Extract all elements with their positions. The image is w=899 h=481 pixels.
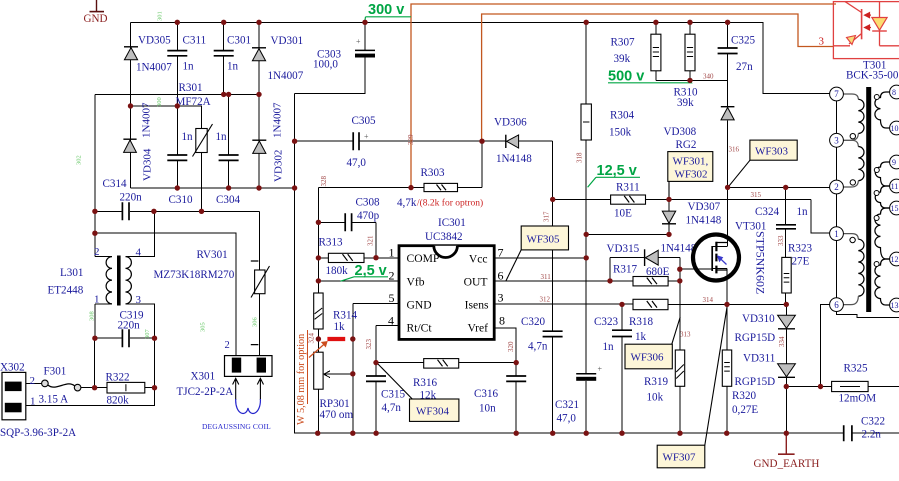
diode VD301 xyxy=(252,35,304,82)
transformer T301 pin 2 xyxy=(830,180,844,194)
svg-text:220n: 220n xyxy=(118,320,141,332)
svg-text:R318: R318 xyxy=(629,316,653,328)
svg-text:WF303: WF303 xyxy=(755,146,789,158)
diode VD310 xyxy=(735,313,796,344)
wire Vfb pin2 row xyxy=(318,280,398,282)
wire clamp row net 340 xyxy=(656,22,728,106)
resistor R325 xyxy=(832,363,877,405)
svg-text:WF302: WF302 xyxy=(675,169,708,181)
svg-text:324: 324 xyxy=(308,333,316,344)
svg-text:47,0: 47,0 xyxy=(557,413,577,425)
wire RP301 wiper arm xyxy=(324,371,353,378)
capacitor C322 xyxy=(844,425,852,441)
svg-text:1n: 1n xyxy=(227,61,239,73)
svg-text:1N4148: 1N4148 xyxy=(496,153,532,165)
transformer T301 pin 11 xyxy=(890,179,899,193)
svg-text:R301: R301 xyxy=(179,82,203,94)
resistor R317 xyxy=(613,264,670,286)
transformer T301 primary winding 3-2 xyxy=(843,140,864,187)
diode VD302 xyxy=(252,102,284,182)
wire L301 pin1 lead xyxy=(95,304,112,338)
transformer T301 phase dot secondary 5 xyxy=(874,262,879,267)
capacitor C305 xyxy=(353,132,359,150)
wire gate lead xyxy=(680,268,712,270)
wire R303 row net 328 xyxy=(318,141,482,187)
svg-text:1: 1 xyxy=(94,294,100,306)
wire GND pin5 row xyxy=(353,303,399,433)
svg-text:WF307: WF307 xyxy=(663,452,697,464)
svg-text:10k: 10k xyxy=(647,392,664,404)
wire Rt/Ct pin4 xyxy=(376,325,399,362)
svg-text:1k: 1k xyxy=(334,321,346,333)
transformer T301 primary winding 1-6 xyxy=(843,234,864,305)
ground symbol GND_EARTH xyxy=(754,433,820,470)
svg-text:7: 7 xyxy=(498,246,504,260)
svg-text:C324: C324 xyxy=(755,206,779,218)
capacitor C311 xyxy=(167,51,187,56)
wire T301 pin2-1 interlink xyxy=(836,194,838,227)
svg-text:12,5 v: 12,5 v xyxy=(597,163,637,179)
svg-text:2: 2 xyxy=(94,246,100,258)
svg-text:3: 3 xyxy=(834,136,839,146)
wire C319 row xyxy=(95,337,155,339)
optocoupler phototransistor xyxy=(833,2,861,46)
wire AC node 1 xyxy=(131,106,202,128)
wire R325 row xyxy=(786,305,899,387)
svg-text:TJC2-2P-2A: TJC2-2P-2A xyxy=(177,386,234,398)
svg-text:MF72A: MF72A xyxy=(176,96,211,108)
resistor R323 xyxy=(782,243,813,294)
svg-text:334: 334 xyxy=(778,336,786,347)
wire net 314 row xyxy=(668,303,786,305)
svg-text:2: 2 xyxy=(389,269,395,283)
svg-text:1n: 1n xyxy=(603,341,615,353)
svg-text:7: 7 xyxy=(834,89,839,99)
transformer T301 phase dot secondary 3 xyxy=(874,191,879,196)
wire C311 column xyxy=(176,22,178,106)
resistor R307 xyxy=(611,34,661,71)
diode VD305 xyxy=(124,35,172,74)
svg-text:R316: R316 xyxy=(413,377,437,389)
svg-text:C315: C315 xyxy=(381,389,405,401)
label 12,5 v xyxy=(588,163,640,187)
transformer T301 pin 1 xyxy=(830,227,844,241)
svg-text:4,7n: 4,7n xyxy=(528,341,548,353)
svg-text:STP5NK60Z: STP5NK60Z xyxy=(754,231,768,294)
svg-text:313: 313 xyxy=(680,331,691,339)
svg-text:R311: R311 xyxy=(616,182,640,194)
svg-text:C301: C301 xyxy=(227,35,251,47)
wire L301 pin3 lead xyxy=(126,304,155,338)
transformer T301 phase dot secondary 1 xyxy=(874,95,879,100)
capacitor C319 xyxy=(122,329,129,347)
diode VD308 xyxy=(664,107,735,151)
svg-text:C308: C308 xyxy=(356,197,380,209)
svg-text:1n: 1n xyxy=(216,131,228,143)
svg-text:1N4148: 1N4148 xyxy=(661,243,697,255)
svg-text:ET2448: ET2448 xyxy=(48,285,84,297)
svg-text:R317: R317 xyxy=(613,264,637,276)
svg-text:1n: 1n xyxy=(183,61,195,73)
svg-text:MZ73K18RM270: MZ73K18RM270 xyxy=(154,269,235,281)
transistor VT301 MOSFET xyxy=(693,221,768,295)
wire VD307 leads xyxy=(586,182,669,235)
svg-text:R313: R313 xyxy=(319,237,343,249)
svg-text:1N4007: 1N4007 xyxy=(272,102,284,138)
svg-text:333: 333 xyxy=(777,235,785,246)
resistor R304 xyxy=(581,104,634,140)
svg-text:VD310: VD310 xyxy=(742,313,775,325)
svg-text:8: 8 xyxy=(499,313,505,327)
wire C305 aux row xyxy=(295,140,553,142)
svg-text:0,27E: 0,27E xyxy=(732,404,758,416)
svg-text:3.15 A: 3.15 A xyxy=(39,394,69,406)
svg-text:R314: R314 xyxy=(333,310,357,322)
transformer T301 pin 15 xyxy=(890,201,899,215)
IC301 pin names xyxy=(407,252,489,335)
resistor R318 xyxy=(629,299,668,343)
svg-text:3: 3 xyxy=(819,36,825,48)
svg-text:27E: 27E xyxy=(792,256,810,268)
wire C323 branch xyxy=(621,304,623,433)
svg-text:X301: X301 xyxy=(191,371,216,383)
svg-text:3: 3 xyxy=(136,294,142,306)
svg-text:317: 317 xyxy=(543,211,551,222)
wire +300V top rail net 301 xyxy=(131,22,830,93)
svg-text:13: 13 xyxy=(891,301,899,310)
svg-text:C321: C321 xyxy=(555,399,579,411)
potentiometer RP301 xyxy=(314,352,354,421)
svg-text:WF306: WF306 xyxy=(631,352,665,364)
wire L301 pin2 stub xyxy=(95,256,112,258)
svg-text:1n: 1n xyxy=(182,131,194,143)
svg-text:RGP15D: RGP15D xyxy=(735,376,776,388)
wire net 317 drop xyxy=(552,141,554,433)
svg-text:4: 4 xyxy=(388,313,394,327)
wire T301 pin3-2 interlink xyxy=(836,147,838,180)
svg-text:X302: X302 xyxy=(0,362,25,374)
svg-text:/(8.2k for optron): /(8.2k for optron) xyxy=(417,198,483,209)
svg-text:R307: R307 xyxy=(611,37,635,49)
capacitor C314 xyxy=(122,202,129,220)
svg-text:15: 15 xyxy=(891,204,899,213)
diode VD315 xyxy=(607,243,697,267)
svg-text:R325: R325 xyxy=(844,363,868,375)
svg-text:500 v: 500 v xyxy=(608,69,644,85)
capacitor C308 xyxy=(345,213,351,231)
transformer T301 phase dot primary 3 xyxy=(850,237,855,242)
svg-text:C304: C304 xyxy=(216,194,240,206)
capacitor C301 xyxy=(214,51,234,56)
wire degauss feed xyxy=(95,233,236,356)
svg-text:320: 320 xyxy=(507,341,515,352)
wire RP301 leads xyxy=(317,339,319,433)
svg-text:323: 323 xyxy=(365,339,373,350)
capacitor C315 xyxy=(366,376,386,381)
svg-text:1: 1 xyxy=(389,246,395,260)
IC301 UC3842 body xyxy=(399,217,494,339)
wire MOSFET drain source leads xyxy=(713,246,728,304)
wire VD310 VD311 branch xyxy=(785,304,787,433)
test point WF303 xyxy=(728,140,797,187)
svg-text:1N4007: 1N4007 xyxy=(136,62,172,74)
thermistor R301 MF72A xyxy=(176,82,213,157)
svg-text:1N4148: 1N4148 xyxy=(686,215,722,227)
svg-text:1k: 1k xyxy=(635,331,647,343)
label 300 v xyxy=(365,2,411,22)
label 2,5 v xyxy=(341,263,389,281)
optocoupler emitter arrowhead xyxy=(847,36,856,45)
wire C304 column xyxy=(228,94,230,188)
wire Vcc pin7 row xyxy=(494,257,586,259)
svg-text:315: 315 xyxy=(751,191,762,199)
resistor R322 xyxy=(106,372,145,407)
svg-text:8: 8 xyxy=(892,88,896,97)
net number labels maroon xyxy=(308,73,787,353)
svg-text:180k: 180k xyxy=(326,265,349,277)
svg-text:11: 11 xyxy=(891,182,899,191)
wire R319 branch net 313 xyxy=(679,281,681,433)
optocoupler T301 box xyxy=(833,2,899,59)
svg-text:WF305: WF305 xyxy=(527,234,561,246)
wire C319 to fuse rail xyxy=(95,338,155,388)
wire T301 pin7 interlink xyxy=(836,101,838,134)
svg-text:316: 316 xyxy=(729,146,740,154)
svg-text:12mOM: 12mOM xyxy=(839,393,877,405)
svg-text:3: 3 xyxy=(498,291,504,305)
svg-text:WF304: WF304 xyxy=(416,406,450,418)
transformer T301 pin 7 xyxy=(830,87,844,101)
diode VD307 xyxy=(662,201,722,227)
svg-text:6: 6 xyxy=(834,300,839,310)
svg-text:39k: 39k xyxy=(677,97,694,109)
svg-text:6: 6 xyxy=(498,269,504,283)
capacitor C303 electrolytic xyxy=(313,37,375,71)
svg-text:Vref: Vref xyxy=(467,322,488,335)
IC301 pin numbers xyxy=(388,246,505,328)
svg-text:1N4007: 1N4007 xyxy=(268,70,304,82)
svg-text:+: + xyxy=(356,37,361,46)
wire optron net 329 orange xyxy=(411,4,836,188)
svg-text:301: 301 xyxy=(157,11,164,21)
svg-text:307: 307 xyxy=(144,329,151,340)
transformer T301 pin 8 xyxy=(890,85,899,99)
diode VD311 xyxy=(735,353,796,389)
transformer T301 secondary windings xyxy=(875,92,890,305)
connector X302 xyxy=(0,362,76,440)
wire drain net xyxy=(728,121,830,247)
transformer T301 pin 9 xyxy=(890,155,899,169)
wire optron emitter orange xyxy=(482,14,834,141)
wire R320 branch xyxy=(726,270,728,433)
svg-text:10E: 10E xyxy=(614,208,632,220)
svg-text:VD311: VD311 xyxy=(743,353,775,365)
transformer T301 label xyxy=(846,60,899,82)
resistor R316 xyxy=(413,359,459,402)
net number labels green xyxy=(76,11,259,339)
test point WF301 WF302 xyxy=(668,152,713,200)
svg-text:WF301,: WF301, xyxy=(673,156,709,168)
ground symbol GND top left xyxy=(84,0,108,25)
svg-text:318: 318 xyxy=(576,152,584,163)
svg-text:VD304: VD304 xyxy=(142,148,154,181)
svg-text:RG2: RG2 xyxy=(676,139,697,151)
wire C301 column xyxy=(223,22,225,94)
svg-text:C311: C311 xyxy=(183,35,207,47)
svg-text:R303: R303 xyxy=(421,167,445,179)
svg-text:W 5,08 mm for option: W 5,08 mm for option xyxy=(296,334,307,425)
capacitor C320 xyxy=(543,331,563,336)
svg-text:C325: C325 xyxy=(731,35,755,47)
wire Isens pin3 row net 312 xyxy=(494,303,633,305)
svg-text:47,0: 47,0 xyxy=(347,157,367,169)
wire net 302 minus rail xyxy=(131,93,899,433)
wire VD315 branch xyxy=(610,258,680,281)
svg-text:5: 5 xyxy=(389,291,395,305)
svg-text:4,7k: 4,7k xyxy=(397,197,417,209)
wire AC node 2 xyxy=(95,93,259,95)
wire C310 column xyxy=(176,106,178,188)
wire C316 branch xyxy=(515,363,517,434)
svg-text:1n: 1n xyxy=(797,206,809,218)
svg-text:150k: 150k xyxy=(609,127,632,139)
svg-text:306: 306 xyxy=(252,317,259,328)
transformer T301 phase dot secondary 2 xyxy=(874,168,879,173)
label option note orange xyxy=(296,330,328,425)
wire C315 branch xyxy=(375,363,377,434)
svg-text:R320: R320 xyxy=(732,390,756,402)
wire VD305 column xyxy=(130,22,132,106)
svg-text:VD308: VD308 xyxy=(664,126,697,138)
svg-text:R304: R304 xyxy=(610,110,634,122)
wire net 324 red highlight xyxy=(327,337,345,341)
svg-text:COMP: COMP xyxy=(407,252,440,265)
wire R317 out xyxy=(668,280,680,282)
degaussing coil arrows xyxy=(233,378,264,400)
connector X301 xyxy=(177,340,273,398)
svg-text:C320: C320 xyxy=(521,316,545,328)
wire left AC feed column xyxy=(94,94,96,256)
wire VD304 column xyxy=(130,106,132,188)
svg-text:680E: 680E xyxy=(646,266,670,278)
wire C314 row xyxy=(95,210,260,212)
inductor L301 common mode choke xyxy=(48,246,142,306)
svg-text:C316: C316 xyxy=(474,388,498,400)
svg-text:GND: GND xyxy=(407,299,432,312)
wire R311 row net 315 xyxy=(553,199,830,232)
svg-text:Vfb: Vfb xyxy=(407,276,425,289)
degaussing coil squiggle xyxy=(236,399,261,414)
svg-text:SQP-3.96-3P-2A: SQP-3.96-3P-2A xyxy=(0,427,76,439)
resistor R313 xyxy=(319,237,365,277)
svg-text:4,7n: 4,7n xyxy=(382,402,402,414)
diode VD306 xyxy=(494,117,532,166)
capacitor C321 electrolytic xyxy=(555,365,603,425)
svg-text:OUT: OUT xyxy=(464,276,488,289)
svg-text:BCK-35-001: BCK-35-001 xyxy=(846,70,899,82)
svg-text:C305: C305 xyxy=(352,115,376,127)
svg-text:470 om: 470 om xyxy=(320,409,354,421)
capacitor C325 xyxy=(718,48,738,54)
capacitor C310 xyxy=(167,155,187,160)
svg-text:+: + xyxy=(598,365,603,374)
test point WF304 xyxy=(377,363,459,421)
transformer T301 pin 13 xyxy=(890,298,899,312)
svg-text:GND_EARTH: GND_EARTH xyxy=(754,458,820,470)
capacitor C304 xyxy=(219,155,239,160)
svg-text:300 v: 300 v xyxy=(368,2,404,18)
transformer T301 pin 3 xyxy=(830,133,844,147)
svg-text:C310: C310 xyxy=(169,194,193,206)
svg-text:314: 314 xyxy=(703,296,714,304)
svg-text:820k: 820k xyxy=(107,395,130,407)
test point WF306 xyxy=(625,317,680,369)
svg-text:C322: C322 xyxy=(861,416,885,428)
resistor R314 xyxy=(314,293,358,333)
svg-text:39k: 39k xyxy=(614,53,631,65)
svg-text:2.2n: 2.2n xyxy=(862,429,882,441)
wire T301 bottom frame xyxy=(837,311,899,317)
svg-text:340: 340 xyxy=(703,73,714,81)
transformer T301 primary winding 7-3 xyxy=(843,94,864,140)
svg-text:IC301: IC301 xyxy=(438,217,466,229)
label 500 v xyxy=(608,69,692,85)
wire COMP pin1 row xyxy=(318,257,398,259)
svg-text:312: 312 xyxy=(540,296,551,304)
svg-text:305: 305 xyxy=(200,322,207,332)
wire L301 pin4 riser xyxy=(126,211,155,256)
resistor R319 xyxy=(644,350,685,404)
wire Vref pin8 xyxy=(494,328,516,363)
wire R316 row xyxy=(376,362,516,364)
transformer T301 pin 10 xyxy=(890,121,899,135)
wire fuse row xyxy=(26,384,155,388)
svg-text:4: 4 xyxy=(136,247,142,259)
svg-text:GND: GND xyxy=(84,13,108,25)
resistor R311 xyxy=(611,182,646,220)
fuse F301 xyxy=(39,366,81,406)
svg-text:311: 311 xyxy=(541,273,552,281)
svg-text:470p: 470p xyxy=(357,210,380,222)
svg-text:300: 300 xyxy=(156,97,163,107)
svg-text:Vcc: Vcc xyxy=(469,252,488,265)
svg-text:9: 9 xyxy=(892,158,896,167)
svg-text:27n: 27n xyxy=(736,61,753,73)
diode VD304 xyxy=(123,102,153,181)
svg-text:DEGAUSSING COIL: DEGAUSSING COIL xyxy=(202,422,271,431)
optocoupler LED xyxy=(872,2,899,46)
svg-text:R322: R322 xyxy=(106,372,130,384)
svg-text:2: 2 xyxy=(834,182,839,192)
svg-text:C314: C314 xyxy=(103,178,127,190)
svg-text:L301: L301 xyxy=(60,267,83,279)
resistor R310 xyxy=(674,34,698,109)
capacitor C323 xyxy=(612,330,632,336)
svg-text:RGP15D: RGP15D xyxy=(735,332,776,344)
test point WF307 xyxy=(657,305,727,468)
wire C308 branch xyxy=(318,222,376,257)
optocoupler light arrows xyxy=(865,13,871,30)
svg-text:VD307: VD307 xyxy=(688,201,721,213)
wire C324 R323 branch net 333 xyxy=(785,187,787,304)
capacitor C324 xyxy=(776,225,796,229)
wire T301 pin1-6 interlink xyxy=(836,241,838,298)
svg-text:R319: R319 xyxy=(644,376,668,388)
wire RV301 column xyxy=(259,211,261,355)
svg-text:302: 302 xyxy=(76,155,83,165)
varistor RV301 xyxy=(154,249,270,345)
resistor R303 xyxy=(421,167,458,192)
